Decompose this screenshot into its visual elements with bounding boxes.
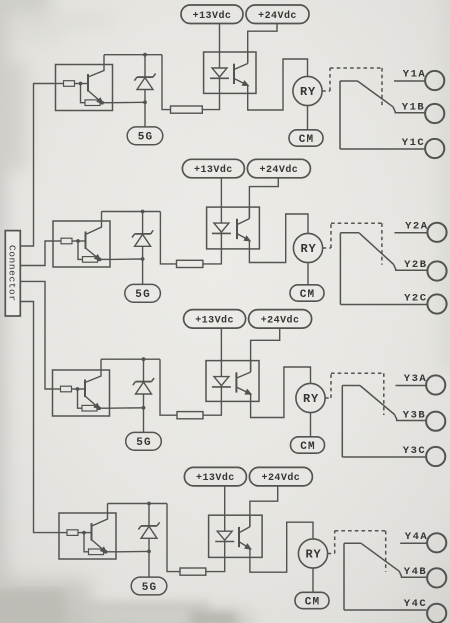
svg-text:Y4A: Y4A [405,531,428,543]
svg-text:RY: RY [303,392,319,406]
svg-text:CM: CM [300,289,316,301]
svg-text:+13Vdc: +13Vdc [196,472,235,484]
svg-text:5G: 5G [142,582,158,594]
svg-text:+13Vdc: +13Vdc [195,314,234,326]
svg-text:Y3C: Y3C [403,445,426,457]
svg-text:Y2B: Y2B [404,259,427,271]
svg-text:5G: 5G [135,289,151,301]
svg-text:+13Vdc: +13Vdc [194,164,233,176]
svg-text:+24Vdc: +24Vdc [262,472,301,484]
svg-text:Y3A: Y3A [404,373,427,385]
svg-text:RY: RY [300,85,316,99]
svg-text:Y2C: Y2C [404,293,427,305]
svg-text:5G: 5G [136,437,152,449]
svg-text:Y3B: Y3B [403,409,426,421]
svg-text:Y4B: Y4B [404,566,427,578]
svg-text:CM: CM [299,134,315,146]
svg-text:CM: CM [305,596,321,608]
svg-text:5G: 5G [138,132,154,144]
svg-text:Y4C: Y4C [404,598,427,610]
svg-text:+24Vdc: +24Vdc [261,314,300,326]
svg-text:+24Vdc: +24Vdc [258,10,297,22]
svg-text:RY: RY [305,548,321,562]
svg-text:CM: CM [300,441,316,453]
svg-text:Connector: Connector [6,245,17,302]
svg-text:Y2A: Y2A [405,221,428,233]
svg-text:Y1A: Y1A [403,69,426,81]
svg-text:Y1C: Y1C [402,137,425,149]
svg-text:RY: RY [300,242,316,256]
svg-text:+13Vdc: +13Vdc [193,10,232,22]
svg-text:+24Vdc: +24Vdc [260,164,299,176]
svg-text:Y1B: Y1B [402,102,425,114]
